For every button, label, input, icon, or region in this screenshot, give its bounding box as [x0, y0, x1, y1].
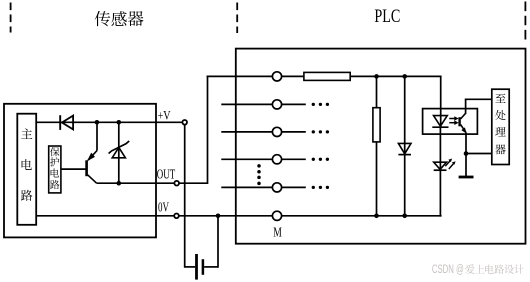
- wire + ellipsis dots, input 2 continues: [282, 103, 329, 106]
- resistor R1 (input series resistor): [282, 72, 350, 80]
- wire: OUT from Q1 collector to OUT terminal: [97, 182, 175, 184]
- diode D2 (reverse clamp): [398, 76, 411, 215]
- svg-text:PLC: PLC: [374, 7, 400, 27]
- node: top rail / R2: [374, 74, 379, 79]
- terminal OUT: [174, 181, 179, 186]
- terminal PLC input 5: [272, 183, 281, 192]
- wire + ellipsis dots, input 3 continues: [282, 130, 329, 133]
- terminal PLC input 4: [272, 155, 281, 164]
- node: battery / 0V junction: [216, 214, 221, 219]
- node: +V / Q1 emitter junction: [95, 120, 100, 125]
- wire: PLC input 3 stub: [221, 131, 272, 133]
- label +V: [158, 108, 171, 123]
- wire: +V terminal down to battery: [184, 125, 195, 267]
- svg-text:M: M: [273, 225, 282, 240]
- svg-text:CSDN @: CSDN @: [432, 264, 464, 276]
- node: top rail / D2: [402, 74, 407, 79]
- wire: input network top rail: [350, 75, 441, 77]
- node: zener / OUT junction: [117, 181, 122, 186]
- wire: PLC input 4 stub: [221, 158, 272, 160]
- node: bottom rail / R2: [374, 214, 379, 219]
- label OUT: [157, 168, 176, 183]
- terminal +V: [182, 120, 187, 125]
- optocoupler LED (input side): [432, 116, 448, 171]
- wire: common bottom rail: [282, 215, 442, 217]
- wire + ellipsis dots, input 5 continues: [282, 186, 329, 189]
- resistor R2 (input divider/bleed): [373, 76, 380, 215]
- label 0V: [158, 201, 169, 216]
- wire: top rail down into optocoupler: [440, 76, 442, 127]
- optocoupler light arrows: [449, 116, 458, 125]
- dashed region boundary, right edge of PLC area: [524, 2, 526, 40]
- dashed region boundary, left edge of 传感器 area: [10, 3, 12, 33]
- battery BT1 (supply between +V and 0V): [197, 254, 203, 280]
- wire + ellipsis dots, input 4 continues: [282, 158, 329, 161]
- terminal M (common): [272, 211, 281, 220]
- wire: PLC input 2 stub: [221, 103, 272, 105]
- optocoupler U1 box: [423, 109, 478, 135]
- PLC enclosure box: [236, 49, 526, 244]
- label M: [273, 225, 282, 240]
- svg-text:+V: +V: [158, 108, 171, 123]
- wire: 0V rail from 主电路 to M terminal: [36, 215, 272, 217]
- vertical ellipsis: more input channels: [257, 164, 261, 185]
- node: emitter / processor-line / ground junction: [464, 151, 469, 156]
- terminal PLC input 2: [272, 100, 281, 109]
- label 传感器 (sensor): [95, 11, 144, 26]
- terminal PLC input 3: [272, 127, 281, 136]
- terminal PLC input 1: [272, 72, 281, 81]
- optocoupler phototransistor (output side): [460, 99, 467, 153]
- node: +V / zener junction: [117, 120, 122, 125]
- svg-text:OUT: OUT: [157, 168, 176, 183]
- main circuit block 主电路: [17, 114, 36, 225]
- label PLC: [374, 7, 400, 27]
- wire: battery return up to 0V rail: [204, 216, 218, 268]
- wire: +V rail from 主电路 to +V terminal: [36, 121, 182, 123]
- wire: PLC input 5 stub: [221, 186, 272, 188]
- LED D3 light-emission arrows: [445, 159, 455, 170]
- zener diode ZD1 (clamp between +V and OUT): [109, 122, 130, 183]
- LED D3 (channel status indicator): [434, 162, 447, 216]
- transistor Q1 (PNP output), base from 保护电路: [61, 122, 97, 183]
- wire: emitter junction to processor block: [466, 153, 492, 155]
- wire: collector to processor block: [465, 98, 492, 100]
- dashed region boundary between 传感器 and PLC areas: [236, 3, 238, 34]
- node: bottom rail / D2: [402, 214, 407, 219]
- sensor internal-circuit enclosure box: [4, 104, 156, 238]
- svg-text:0V: 0V: [158, 201, 169, 216]
- terminal 0V: [174, 214, 179, 219]
- diode D1 (reverse-polarity protection, cathode left): [60, 115, 73, 130]
- watermark CSDN @爱上电路设计: [432, 264, 524, 276]
- protection circuit block 保护电路: [49, 146, 61, 193]
- wire: OUT terminal up to PLC input row 1: [179, 76, 272, 184]
- block 至处理器 (to processor): [492, 89, 509, 164]
- ground (0V reference): [459, 154, 474, 178]
